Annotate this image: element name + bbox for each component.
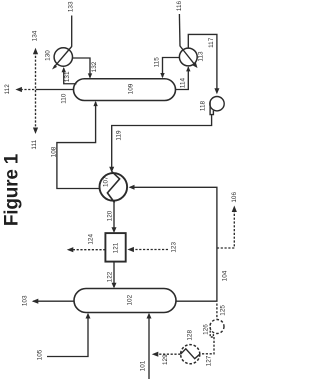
svg-text:103: 103 [22,295,29,306]
dashed line 106 branch [217,210,234,248]
svg-text:127: 127 [205,355,212,366]
svg-text:109: 109 [128,83,135,94]
line 133 [71,16,73,47]
svg-text:101: 101 [140,360,147,371]
svg-text:129: 129 [162,354,169,365]
dashed line 129 heater 128 to line 101 [156,353,180,355]
svg-text:104: 104 [221,270,228,281]
line 120 mixer 107 to unit 121 [113,201,115,232]
svg-text:111: 111 [31,139,38,149]
svg-text:Figure 1: Figure 1 [2,153,23,226]
line 131 vessel 109 to exchanger 130 [64,68,77,84]
line 105 feed to vessel 102 [47,315,88,357]
line 115 exchanger 113 to vessel 109 [163,58,180,78]
svg-text:120: 120 [106,210,113,221]
exchanger 130 diagonal arrow [54,47,72,68]
svg-text:106: 106 [231,192,238,203]
heater 128 dashed circle [181,345,200,364]
svg-text:125: 125 [219,305,226,316]
pump 126 dashed [210,320,224,334]
svg-text:114: 114 [180,77,187,88]
pump 118 [210,97,224,111]
svg-text:112: 112 [4,84,11,95]
dashed line 112 with arrow [21,89,39,91]
arrow down to 111 [33,128,38,135]
svg-text:122: 122 [106,271,113,282]
dashed line 134/111 vertical [35,52,37,130]
svg-text:119: 119 [115,130,122,141]
arrow up to 134 [33,48,38,55]
line 104 vessel 102 to mixer 107 [130,187,217,301]
svg-text:126: 126 [202,324,209,335]
svg-text:131: 131 [64,71,71,82]
line 132 exchanger outlet to vessel 109 [73,58,91,78]
vessel 109 [74,79,176,101]
svg-text:128: 128 [186,330,193,341]
heat exchanger U130 circle [54,48,72,66]
svg-text:134: 134 [31,30,38,41]
mixer 107 zigzag [107,171,119,202]
line 119 pump 118 to mixer 107 [112,115,212,171]
dashed line 125 vessel 102 outlet to pump 126 [216,304,218,320]
svg-text:108: 108 [51,146,58,157]
heat exchanger U113 circle [179,48,197,66]
line 122 unit 121 to vessel 102 [113,262,115,287]
svg-text:133: 133 [67,1,74,12]
line 117 exchanger 113 to pump 118 [188,34,217,92]
line 101 feed to vessel 102 [148,315,150,379]
line 108 mixer 107 to vessel 109 [57,102,100,189]
svg-text:107: 107 [103,176,110,187]
line 116 [178,14,181,46]
svg-text:117: 117 [208,37,215,48]
line 103 vessel 102 left outlet [33,300,74,302]
svg-text:110: 110 [61,93,68,104]
svg-text:113: 113 [197,51,204,62]
heater 128 zigzag [181,349,200,359]
svg-text:123: 123 [171,242,178,253]
svg-text:124: 124 [88,234,95,245]
svg-text:132: 132 [91,61,98,72]
svg-text:118: 118 [200,100,207,111]
mixer 107 circle [100,173,128,201]
svg-text:102: 102 [127,294,134,305]
svg-text:121: 121 [112,242,119,253]
dashed line 124 out of unit 121 [72,249,105,251]
exchanger 113 diagonal arrow [180,46,196,66]
vessel 102 [74,289,176,313]
dashed line 123 into unit 121 [131,249,168,251]
svg-text:130: 130 [45,50,52,61]
line 114 vessel 109 to exchanger 113 [176,67,189,89]
svg-text:116: 116 [176,0,183,11]
dashed line 127 pump 126 to exchanger 128 [201,337,214,354]
line 110 vessel 109 left outlet [38,89,74,91]
svg-text:115: 115 [153,57,160,68]
svg-text:105: 105 [37,349,44,360]
unit 121 box [105,233,125,262]
